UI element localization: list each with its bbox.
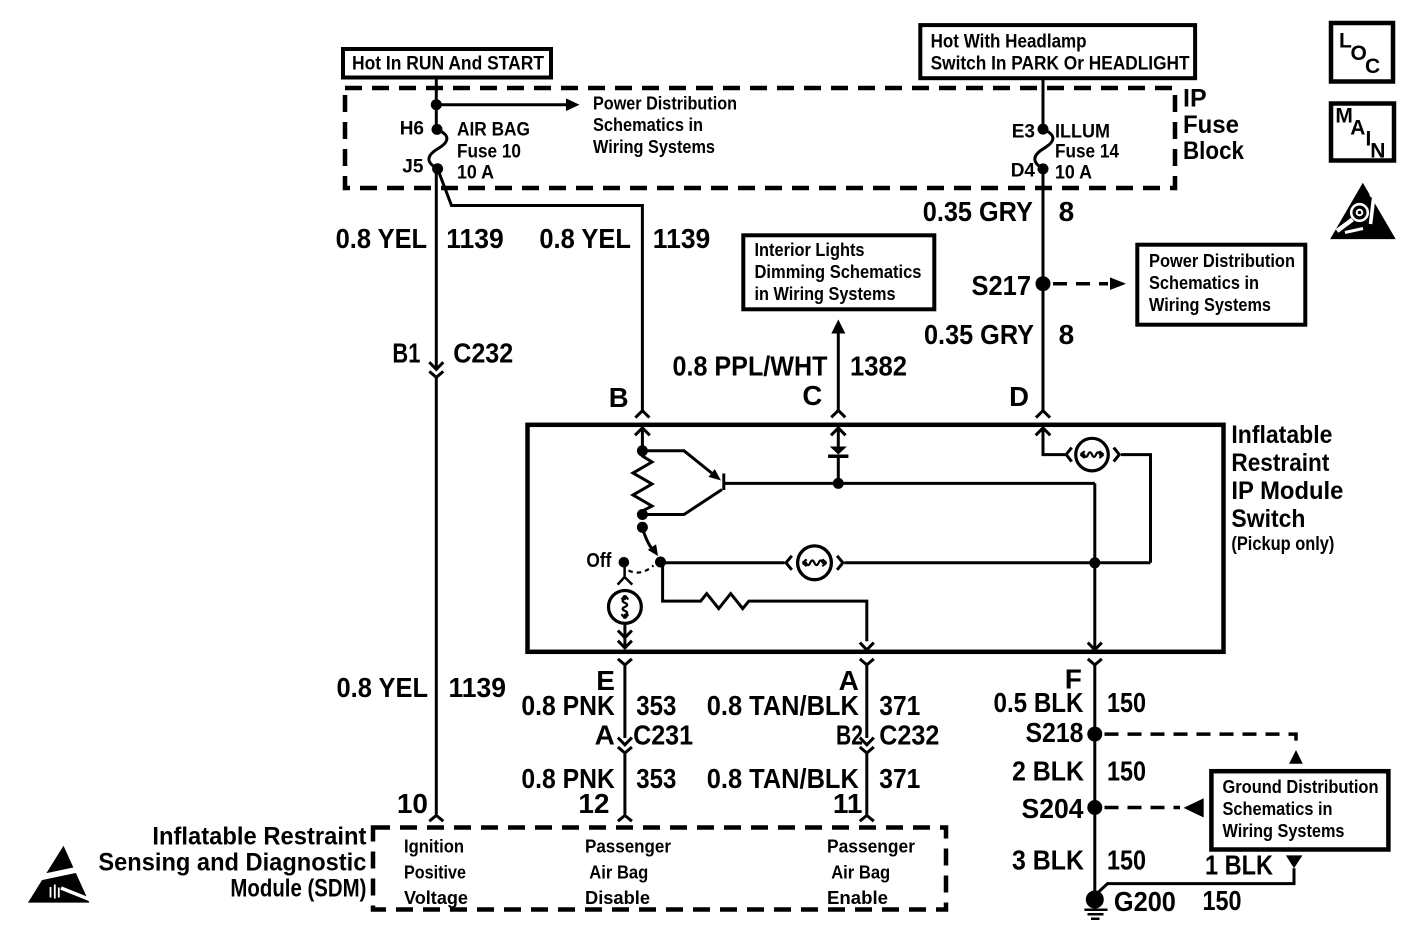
svg-text:Module (SDM): Module (SDM) (230, 874, 366, 902)
svg-text:(Pickup only): (Pickup only) (1231, 534, 1334, 555)
label: 0.8 TAN/BLK 371 (upper) (707, 690, 921, 721)
svg-text:AIR BAG: AIR BAG (457, 120, 530, 141)
SDM dashed box (373, 828, 946, 910)
node: junction with lamp row (1089, 557, 1100, 568)
svg-text:C: C (1365, 55, 1380, 78)
wire: branch from J5 to switch pin B (438, 169, 643, 411)
wire: ILLUM fuse output 0.35 GRY (1042, 169, 1045, 411)
svg-text:C: C (802, 380, 822, 411)
wire: 0.8 PPL/WHT 1382 from pin C up to Interior Lights box (831, 320, 845, 411)
Inflatable Restraint IP Module Switch box (528, 425, 1224, 652)
svg-text:8: 8 (1059, 196, 1075, 227)
svg-text:Wiring Systems: Wiring Systems (1149, 295, 1271, 315)
wire: pin F ground run 0.5 BLK 150 (1088, 659, 1102, 895)
svg-text:S204: S204 (1022, 793, 1084, 824)
svg-text:Positive: Positive (404, 862, 466, 882)
IP Fuse Block dashed box (345, 88, 1175, 188)
svg-text:Wiring Systems: Wiring Systems (593, 137, 715, 157)
svg-text:150: 150 (1203, 885, 1242, 916)
wiper contact tick (722, 474, 725, 491)
potentiometer resistive element (633, 451, 652, 515)
pin E inner double arrow (618, 623, 632, 648)
svg-text:Ground Distribution: Ground Distribution (1223, 777, 1379, 797)
svg-text:C232: C232 (879, 720, 939, 751)
svg-text:Hot With Headlamp: Hot With Headlamp (931, 32, 1087, 53)
lamp: middle row lamp (air bag disable indicator) (661, 546, 843, 580)
svg-text:B: B (609, 382, 629, 413)
svg-text:IP: IP (1183, 85, 1207, 113)
svg-text:Inflatable: Inflatable (1231, 421, 1332, 449)
wire: pin E to SDM pin 12 (0.8 PNK 353) (618, 659, 632, 738)
arrowhead on wiper feed (709, 469, 722, 480)
wire: wiper output line (724, 482, 1095, 485)
wire: to fuse 10 terminal H6 (435, 105, 438, 130)
svg-text:2 BLK: 2 BLK (1012, 756, 1084, 787)
LOC box (1331, 23, 1393, 82)
svg-text:Block: Block (1183, 137, 1244, 165)
wire: pot top end to wiper tick (642, 451, 713, 475)
svg-text:353: 353 (636, 690, 676, 721)
svg-text:10 A: 10 A (1055, 163, 1092, 184)
label: 0.8 PNK 353 (upper) (521, 690, 676, 721)
wire: from Hot With Headlamp box into fuse block (1042, 78, 1045, 129)
splice S218 (1026, 717, 1103, 748)
splice S217 (972, 270, 1051, 301)
box: Interior Lights Dimming Schematics in Wiring Systems (743, 235, 934, 309)
svg-text:C232: C232 (453, 338, 513, 369)
svg-text:3 BLK: 3 BLK (1012, 845, 1084, 876)
wire: 0.8 YEL continues to SDM pin 10 (435, 377, 438, 814)
switch Off position contact (586, 550, 653, 584)
pin F inner arrow (1088, 643, 1102, 650)
svg-text:12: 12 (578, 788, 609, 819)
label: 2 BLK 150 (1012, 756, 1146, 787)
resistor R1 (series resistor to pin A) (663, 563, 874, 650)
MAIN box (1331, 104, 1394, 163)
connector chevron at SDM pin 10 (429, 815, 443, 821)
fuse AIR BAG Fuse 10 10A (400, 118, 530, 183)
svg-text:Power Distribution: Power Distribution (593, 94, 737, 114)
svg-text:D4: D4 (1011, 161, 1036, 182)
wire: lamp D to right drop (1121, 455, 1151, 563)
connector chevron at pin B (635, 411, 649, 418)
svg-text:371: 371 (879, 763, 920, 794)
node: potentiometer top junction (637, 445, 648, 456)
pin B inner arrow (635, 428, 650, 451)
svg-text:0.8 TAN/BLK: 0.8 TAN/BLK (707, 690, 859, 721)
wire: 1 BLK 150 from Ground Distribution to G200 (1095, 850, 1303, 917)
label: 0.8 YEL 1139 (left) (336, 223, 504, 254)
dashed reference from S218 to Ground Distribution box (1105, 734, 1303, 764)
lamp: switch Off indicator lamp (vertical) (609, 591, 642, 624)
box: Hot With Headlamp Switch In PARK Or HEADLIGHT (920, 25, 1195, 78)
label: 0.8 PPL/WHT 1382 (673, 350, 908, 381)
node: junction at fuse feed (431, 99, 442, 110)
svg-text:150: 150 (1107, 756, 1146, 787)
svg-text:Switch In PARK Or HEADLIGHT: Switch In PARK Or HEADLIGHT (931, 54, 1190, 75)
svg-text:Switch: Switch (1231, 505, 1305, 533)
svg-text:0.8 YEL: 0.8 YEL (336, 223, 428, 254)
label: Inflatable Restraint Sensing and Diagnostic Module (SDM) (98, 822, 367, 902)
svg-text:Power Distribution: Power Distribution (1149, 251, 1295, 271)
svg-text:B2: B2 (836, 720, 863, 751)
svg-text:0.35 GRY: 0.35 GRY (924, 319, 1034, 350)
label: 3 BLK 150 (1012, 845, 1146, 876)
svg-text:ILLUM: ILLUM (1055, 122, 1110, 143)
svg-text:Passenger: Passenger (585, 837, 671, 857)
svg-text:Voltage: Voltage (404, 888, 468, 908)
switch wiper arc from pot to common node (637, 522, 658, 556)
svg-text:11: 11 (833, 788, 863, 819)
svg-text:Off: Off (586, 550, 611, 572)
connector chevron at pin C (831, 410, 845, 417)
svg-text:10: 10 (397, 788, 428, 819)
svg-text:A: A (595, 720, 615, 751)
connector C232 terminal B2 (in-line) (836, 720, 939, 754)
wire: wiper output drop to pin F (1093, 483, 1096, 648)
label: 0.35 GRY 8 (upper) (923, 196, 1074, 227)
svg-text:J5: J5 (402, 157, 424, 178)
svg-text:353: 353 (636, 763, 676, 794)
svg-text:Passenger: Passenger (827, 837, 915, 857)
pin D inner arrow (1036, 428, 1065, 455)
wire: 0.8 YEL 1139 left run from J5 to SDM (435, 169, 438, 369)
svg-text:1139: 1139 (446, 223, 504, 254)
label: IP Fuse Block (1183, 85, 1244, 166)
svg-text:Disable: Disable (585, 888, 650, 908)
svg-text:Ignition: Ignition (404, 837, 464, 857)
svg-text:Hot In RUN And START: Hot In RUN And START (352, 54, 544, 75)
svg-text:A: A (1350, 117, 1365, 140)
connector C231 terminal A (in-line) (595, 720, 693, 754)
box: Hot In RUN And START (343, 49, 551, 78)
wire: lamp row to right riser (844, 561, 1150, 564)
svg-text:N: N (1370, 139, 1385, 162)
svg-text:Interior Lights: Interior Lights (755, 240, 865, 260)
node: diode to wiper line junction (833, 478, 844, 489)
svg-text:1139: 1139 (653, 223, 711, 254)
svg-text:C231: C231 (633, 720, 693, 751)
node: potentiometer bottom junction (637, 509, 648, 520)
svg-text:Air Bag: Air Bag (831, 862, 890, 882)
fuse ILLUM Fuse 14 10A (1011, 122, 1120, 184)
svg-text:0.5 BLK: 0.5 BLK (994, 687, 1084, 718)
svg-text:0.8 PNK: 0.8 PNK (521, 690, 615, 721)
dashed reference from S217 to Power Distribution box (1053, 277, 1126, 290)
svg-text:150: 150 (1107, 845, 1146, 876)
svg-text:Wiring Systems: Wiring Systems (1223, 821, 1345, 841)
svg-text:0.8 YEL: 0.8 YEL (337, 672, 429, 703)
dashed reference from S204 to Ground Distribution box (1105, 798, 1204, 817)
svg-text:8: 8 (1059, 319, 1075, 350)
label: 0.8 PNK 353 (lower) (521, 763, 676, 794)
lamp: instrument illumination lamp (top right) (1066, 438, 1119, 471)
label: Inflatable Restraint IP Module Switch (Pickup only) (1231, 421, 1343, 555)
svg-text:Dimming Schematics: Dimming Schematics (755, 262, 922, 282)
svg-text:Restraint: Restraint (1231, 449, 1330, 477)
splice S204 (1022, 793, 1103, 824)
svg-text:S218: S218 (1026, 717, 1084, 748)
box: Ground Distribution Schematics in Wiring Systems (1211, 771, 1388, 849)
wire: pin A to SDM pin 11 (0.8 TAN/BLK 371) (860, 659, 874, 738)
label: 0.5 BLK 150 (994, 687, 1147, 718)
connector chevron at SDM pin 11 (860, 815, 874, 821)
svg-text:0.35 GRY: 0.35 GRY (923, 196, 1033, 227)
svg-text:1382: 1382 (850, 350, 907, 381)
wire: pot bottom end to wiper tick (642, 490, 722, 515)
svg-text:1 BLK: 1 BLK (1205, 850, 1273, 881)
pin C inner arrow (831, 428, 846, 447)
svg-text:Fuse 14: Fuse 14 (1055, 142, 1119, 163)
wire: C231 to SDM pin 12 (623, 753, 626, 814)
diode CR1 (828, 447, 848, 484)
svg-text:10 A: 10 A (457, 163, 494, 184)
svg-text:S217: S217 (972, 270, 1032, 301)
svg-text:Sensing and Diagnostic: Sensing and Diagnostic (98, 848, 366, 876)
connector C232 terminal B1 (in-line) (392, 338, 513, 378)
wire: arrow to Power Distribution note (436, 103, 566, 106)
connector chevron at SDM pin 12 (618, 815, 632, 821)
svg-text:IP Module: IP Module (1231, 477, 1343, 505)
svg-text:0.8 PPL/WHT: 0.8 PPL/WHT (673, 350, 828, 381)
svg-text:in Wiring Systems: in Wiring Systems (755, 284, 896, 304)
svg-text:1139: 1139 (449, 672, 507, 703)
svg-text:Air Bag: Air Bag (589, 862, 648, 882)
svg-text:E3: E3 (1012, 122, 1035, 143)
node: switch common (655, 557, 666, 568)
wire: C232 to SDM pin 11 (865, 753, 868, 814)
ESD warning triangle (top right) (1330, 183, 1396, 239)
label: 0.8 TAN/BLK 371 (lower) (707, 763, 921, 794)
svg-text:Fuse: Fuse (1183, 111, 1239, 139)
svg-text:Inflatable Restraint: Inflatable Restraint (152, 822, 367, 850)
svg-text:Enable: Enable (827, 888, 888, 908)
svg-text:Schematics in: Schematics in (1223, 799, 1333, 819)
svg-text:Schematics in: Schematics in (1149, 273, 1259, 293)
svg-text:Fuse 10: Fuse 10 (457, 142, 521, 163)
box: Power Distribution Schematics in Wiring Systems (1137, 245, 1305, 325)
connector chevron at pin D (1036, 411, 1050, 418)
label: SDM pin functions (404, 837, 915, 909)
svg-text:G200: G200 (1114, 886, 1176, 917)
svg-text:H6: H6 (400, 118, 424, 139)
svg-text:150: 150 (1107, 687, 1146, 718)
svg-text:B1: B1 (392, 338, 420, 369)
ground G200 (1084, 886, 1176, 919)
label: 0.8 YEL 1139 (lower) (337, 672, 507, 703)
ESD warning triangle (bottom left) (28, 846, 91, 903)
svg-text:0.8 YEL: 0.8 YEL (539, 223, 631, 254)
wire: from Hot In RUN box into fuse block (435, 78, 438, 105)
label: 0.35 GRY 8 (lower) (924, 319, 1074, 350)
label: 0.8 YEL 1139 (branch) (539, 223, 710, 254)
label: Power Distribution Schematics in Wiring Systems (top) (593, 94, 737, 157)
svg-text:Schematics in: Schematics in (593, 115, 703, 135)
svg-text:D: D (1009, 381, 1029, 412)
svg-text:371: 371 (879, 690, 920, 721)
